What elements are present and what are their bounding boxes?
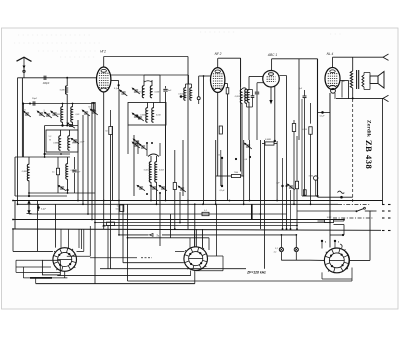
svg-text:NF 2: NF 2 — [215, 52, 222, 56]
IF2 coil a — [150, 156, 152, 162]
svg-text:ZF=128 kHz: ZF=128 kHz — [246, 271, 266, 275]
IF3 right loop cap — [247, 89, 253, 91]
dial lamp 2 — [294, 248, 298, 252]
IF1b coil b — [153, 103, 155, 109]
svg-text:0,1μF: 0,1μF — [41, 209, 47, 211]
vertical x183 — [182, 140, 184, 196]
speaker — [370, 76, 378, 84]
vertical x55.5 — [55, 204, 57, 247]
IF2 verticals — [150, 182, 152, 201]
tone squiggle — [338, 191, 345, 193]
S1 bottom drop — [64, 271, 66, 278]
svg-text:3: 3 — [43, 110, 44, 112]
svg-text:000: 000 — [116, 209, 119, 211]
svg-text:3,2: 3,2 — [275, 248, 278, 250]
resistor V1 bias — [92, 102, 95, 110]
bus B9 y234.9 — [119, 234, 149, 236]
verticals mid — [215, 140, 217, 204]
svg-text:5,2: 5,2 — [49, 136, 52, 138]
wire y193 — [29, 192, 95, 194]
svg-text:0,3MΩ: 0,3MΩ — [265, 139, 271, 141]
trimmer on y125 — [66, 121, 76, 129]
bottom long y283.6 — [36, 283, 195, 285]
svg-text:Zerdik: Zerdik — [366, 120, 372, 137]
electrolytic 0,1uF — [37, 206, 40, 209]
capacitor 3nF IF1 — [165, 86, 167, 89]
svg-text:4,2: 4,2 — [274, 252, 277, 254]
S2 left wires — [175, 250, 185, 252]
S3 pin labels — [321, 240, 323, 242]
S2 bottom wires — [58, 275, 191, 277]
coil KW a — [62, 104, 64, 108]
cap 0,1 between x317 x330 — [318, 111, 331, 113]
svg-text:1,1nF: 1,1nF — [80, 142, 86, 144]
trimmer bank — [22, 110, 32, 118]
secondary tap — [341, 81, 343, 98]
tube V4 NL 4 — [325, 68, 340, 90]
svg-text:24: 24 — [23, 110, 25, 112]
bus B10 y237.8 — [128, 237, 210, 239]
svg-text:200pF: 200pF — [42, 83, 50, 85]
cap left of V3 — [257, 82, 264, 84]
trimmer mid1 — [132, 138, 142, 146]
S1 right wires — [77, 250, 84, 252]
osc coil a — [60, 130, 62, 136]
box under 101,2 — [334, 224, 345, 226]
svg-text:50: 50 — [117, 206, 119, 208]
chassis arrow — [28, 202, 30, 213]
resistor 50000 — [120, 205, 124, 212]
svg-text:NL 4: NL 4 — [327, 52, 334, 56]
S1 left box — [42, 260, 60, 275]
svg-text:2,5: 2,5 — [52, 172, 55, 174]
verticals under V1 — [112, 126, 114, 201]
V4 bottom downs — [329, 93, 331, 248]
vertical x194.8 long — [194, 204, 196, 247]
svg-text:0,1M: 0,1M — [303, 129, 308, 131]
bus y197.2 right — [318, 196, 353, 198]
S3 left wire — [310, 259, 324, 261]
resistor 0,1 on B3 — [202, 212, 209, 215]
vertical x123 — [122, 204, 124, 262]
svg-text:0,1μF: 0,1μF — [220, 190, 226, 192]
wire V1 topcap bus y56.5 — [104, 56, 188, 58]
dot 0,1uF mid — [221, 185, 223, 187]
S1 dark bottom line — [23, 277, 67, 279]
V2 left wire — [199, 75, 211, 77]
wires under box — [44, 126, 46, 158]
bus B6 y225.5 — [104, 225, 297, 227]
S2 right box — [208, 255, 224, 257]
bus B1 y200.5 — [13, 200, 383, 202]
IF2 trimmers — [136, 184, 146, 192]
svg-text:50: 50 — [105, 131, 107, 133]
V2 cathode down — [217, 93, 219, 177]
IF3 coil a — [240, 89, 242, 103]
svg-text:0,5M: 0,5M — [309, 176, 314, 178]
vertical x160 — [159, 193, 161, 246]
vertical x243.7 — [243, 140, 245, 204]
oscillator box — [46, 130, 78, 152]
wire speaker bottom y98.4 — [336, 97, 383, 99]
resistor under V2 left — [219, 126, 222, 134]
junction dots on bus — [103, 200, 105, 202]
trimmer x182 — [177, 185, 187, 193]
wire V1 anode right — [111, 74, 189, 76]
svg-text:15pF: 15pF — [32, 98, 38, 100]
V4 drop x317.5 — [317, 59, 319, 196]
svg-text:7500: 7500 — [234, 172, 238, 174]
trimmer in box — [70, 137, 80, 145]
S3 bottom box — [321, 272, 323, 279]
tube V3 ABC 1 — [263, 70, 280, 87]
V4 anode wire — [340, 80, 349, 82]
wire V2 topcap y58.2 — [218, 57, 241, 59]
resistor 50k under V1 — [109, 127, 112, 135]
bus B5 y222.5 — [95, 222, 330, 224]
vertical x188 long — [187, 57, 189, 230]
out y218 — [333, 217, 373, 219]
resistor x294 — [293, 120, 295, 124]
V3 left wires — [249, 76, 263, 78]
bus B2 y204.3 — [18, 203, 339, 205]
IF1b coil a — [147, 103, 149, 109]
socket S3 — [324, 248, 349, 273]
wire V1 g2 — [111, 80, 119, 82]
pot circle — [314, 176, 318, 180]
IF2 coil b — [156, 156, 158, 162]
trimmers top mid — [131, 141, 141, 149]
vertical x277.1 — [276, 141, 278, 201]
coil KW b — [72, 104, 74, 108]
vertical x249.5 — [249, 140, 251, 201]
IF2 arc — [148, 154, 159, 157]
resistor 0,3M — [265, 142, 274, 145]
antenna — [17, 57, 32, 61]
cap 1uF — [281, 185, 283, 187]
svg-text:50: 50 — [218, 155, 220, 157]
wire V1 cathode down — [103, 92, 105, 229]
wire V3 to V4 y58.8 — [272, 58, 318, 60]
lamp bottoms — [280, 252, 282, 261]
resistor 101,2 — [325, 219, 334, 222]
dots mid — [221, 157, 223, 159]
capacitor 200pF series — [43, 76, 45, 80]
left vertical x17.5 — [17, 78, 19, 205]
dial lamp 1 — [279, 248, 283, 252]
vertical x108 bottom — [107, 226, 109, 269]
scan speckle — [18, 34, 90, 36]
speaker terminal fork top — [383, 54, 389, 57]
vertical x299 — [298, 59, 300, 140]
osc coil b — [69, 130, 71, 136]
coil 0,066 — [28, 157, 30, 165]
IF3 coil b — [245, 89, 247, 103]
cap x304 — [304, 90, 306, 96]
wire y125.5 — [45, 125, 78, 127]
feeders right of input — [77, 120, 79, 201]
svg-text:Hf 2: Hf 2 — [100, 50, 106, 54]
resistor 1M on B6 — [107, 222, 115, 225]
V2 right wire — [225, 83, 228, 85]
transformer secondary — [362, 75, 364, 87]
socket S1 — [53, 248, 77, 272]
IF1 link — [144, 81, 152, 82]
wire antenna to V1 grid — [18, 77, 97, 79]
resistor x174.8 — [174, 150, 176, 183]
V3 right verticals — [274, 86, 276, 142]
svg-text:ABC 1: ABC 1 — [267, 53, 277, 57]
vertical x170.5 — [170, 214, 172, 238]
svg-text:101,2: 101,2 — [327, 217, 332, 219]
cap disc V2 left — [197, 97, 200, 100]
tube V2 NF 2 — [211, 68, 225, 93]
output transformer primary — [352, 57, 354, 71]
trimmer low — [57, 184, 67, 192]
tube V1 Hf 2 — [97, 67, 111, 92]
V3 diode arrow — [270, 87, 272, 101]
resistor 7500 — [232, 174, 241, 177]
IF1 box — [128, 103, 166, 126]
vertical x165.5 — [165, 125, 167, 201]
bus B3 y214 — [29, 213, 287, 215]
resistor box V2 right — [226, 88, 229, 94]
IF1 trimmers — [131, 87, 141, 95]
svg-text:0,1: 0,1 — [204, 210, 207, 212]
IF0 coil pair — [185, 84, 187, 88]
resistor x310.5 — [310, 103, 312, 124]
bus B4 y219.5 — [13, 219, 344, 221]
wire y235 right stub — [330, 234, 343, 236]
vertical x382.5 — [382, 98, 384, 204]
out y211 with switch — [297, 210, 356, 212]
vertical x127.5 — [127, 204, 129, 281]
S1 left wires — [12, 229, 14, 251]
resistor x297 — [296, 136, 298, 181]
transformer core — [356, 70, 358, 89]
speaker terminal fork bottom — [383, 95, 389, 98]
small resistor x304 y193 — [303, 190, 306, 196]
trimmer under V2 — [243, 142, 253, 150]
left vertical x15 broken — [14, 157, 16, 196]
lamp feeds — [280, 235, 282, 248]
coil 0,035 low — [67, 157, 69, 164]
vertical x264.5 — [264, 140, 266, 269]
thick stub x251.8 — [251, 204, 253, 220]
antenna down x23.2 — [21, 78, 23, 157]
vertical x302 — [301, 99, 303, 196]
vertical x330 — [329, 93, 331, 223]
wire input bus y103.5 — [23, 103, 95, 105]
resistor 2,5 — [56, 168, 59, 175]
capacitor 3nF low — [74, 157, 76, 169]
bus y196 right — [302, 195, 318, 197]
trimmer right pair — [81, 109, 91, 117]
svg-text:4,8: 4,8 — [244, 159, 247, 161]
IF1 coil a — [143, 80, 145, 86]
vertical x37.5 — [37, 201, 39, 252]
trimmer near V1 — [118, 89, 128, 97]
antenna coil 0,036 — [66, 78, 68, 86]
IF1 coil b — [151, 80, 153, 86]
socket S2 — [184, 247, 208, 271]
svg-text:0,1μF: 0,1μF — [320, 116, 326, 118]
wire y196 — [15, 195, 67, 197]
S2 top feeds — [189, 238, 191, 248]
vertical x370 — [369, 211, 371, 261]
trimmer x291 — [286, 183, 296, 191]
svg-text:ZB 438: ZB 438 — [364, 140, 374, 169]
mains switch — [356, 210, 358, 212]
vertical x260.5 — [260, 140, 262, 229]
bus B7 y229 — [13, 229, 381, 230]
capacitor 15pF — [32, 101, 34, 105]
coil 0,022 — [247, 90, 249, 102]
wire V4 topcap to speaker y57.2 — [333, 56, 384, 58]
S1 top feeds extra — [60, 229, 62, 248]
mech link dashdot — [352, 99, 354, 205]
IF1b trimmer — [131, 112, 141, 120]
